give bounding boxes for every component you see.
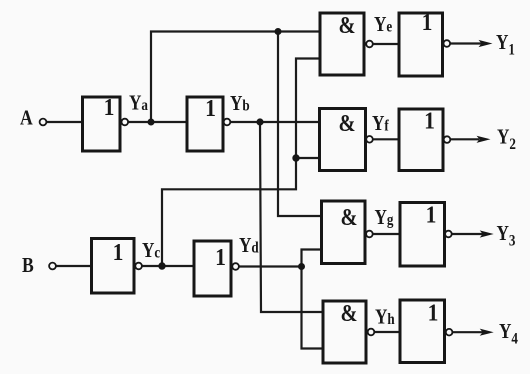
svg-text:&: & [340, 203, 357, 230]
svg-text:1: 1 [424, 107, 435, 133]
svg-text:Ye: Ye [374, 14, 393, 37]
svg-text:Y3: Y3 [497, 223, 516, 250]
svg-text:1: 1 [426, 201, 437, 227]
svg-text:Yc: Yc [142, 240, 161, 263]
svg-text:&: & [338, 11, 355, 38]
svg-text:1: 1 [428, 299, 439, 325]
svg-text:Yh: Yh [375, 306, 395, 329]
svg-text:Ya: Ya [129, 92, 149, 115]
svg-text:1: 1 [215, 244, 226, 270]
svg-text:1: 1 [205, 95, 216, 121]
svg-text:Y4: Y4 [499, 321, 519, 348]
svg-text:Yg: Yg [375, 207, 395, 230]
svg-text:1: 1 [422, 9, 433, 35]
svg-text:&: & [338, 109, 355, 136]
svg-text:1: 1 [113, 239, 124, 265]
svg-text:1: 1 [104, 94, 115, 120]
svg-text:Yd: Yd [239, 235, 259, 258]
svg-text:Y1: Y1 [496, 32, 515, 59]
svg-text:A: A [20, 107, 33, 130]
svg-text:Yb: Yb [230, 93, 250, 116]
svg-text:Y2: Y2 [497, 126, 516, 153]
svg-text:B: B [22, 255, 34, 278]
svg-text:Yf: Yf [372, 113, 390, 136]
svg-text:&: & [340, 299, 357, 326]
